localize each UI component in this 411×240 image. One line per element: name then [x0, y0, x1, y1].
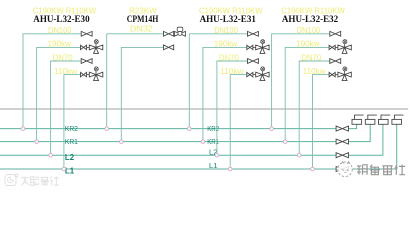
svg-text:AHU-L32-E32: AHU-L32-E32 [282, 14, 339, 24]
connector AHU-L32-E31 row 2 [253, 46, 256, 48]
connector AHU-L32-E32 row 4 [335, 74, 338, 76]
riser outlet box 4 [392, 115, 404, 124]
svg-text:AHU-L32-E31: AHU-L32-E31 [200, 14, 257, 24]
shutoff valve on L2 [336, 152, 349, 158]
node AHU-L32-E32 branch 2 to KR1 [283, 140, 287, 144]
svg-text:L2: L2 [65, 152, 75, 162]
connector AHU-L32-E30 row 4 [87, 74, 90, 76]
shutoff valve on KR2 [336, 126, 349, 132]
3-way control valve AHU-L32-E30 row 2 [89, 40, 103, 54]
bus pipe L1 [0, 124, 397, 169]
wire AHU-L32-E32 branch 2 (KR1 riser) [285, 47, 329, 141]
wire AHU-L32-E32 branch 3 (L2 riser) [299, 61, 330, 155]
3-way control valve AHU-L32-E32 row 4 [338, 67, 351, 81]
gate valve AHU-L32-E31 row 3 [248, 59, 259, 64]
riser outlet box 3 [379, 115, 391, 124]
gate valve AHU-L32-E30 row 3 [81, 59, 92, 64]
wire CPM14H branch 1 (KR2 riser) [107, 34, 164, 129]
wire AHU-L32-E31 branch 3 (L2 riser) [217, 61, 248, 155]
wire AHU-L32-E30 branch 1 (KR2 riser) [23, 34, 81, 129]
node CPM14H branch 2 to KR1 [120, 140, 124, 144]
svg-text:L1: L1 [209, 161, 218, 170]
svg-text:CPM14H: CPM14H [127, 14, 159, 24]
svg-text:L1: L1 [65, 166, 75, 176]
svg-text:DN32: DN32 [130, 24, 153, 33]
watermark logo bottom-left [5, 174, 59, 186]
gate valve CPM14H row 2 [164, 45, 174, 50]
node AHU-L32-E31 branch 3 to L2 [215, 153, 219, 157]
3-way control valve AHU-L32-E30 row 4 [89, 67, 103, 81]
node AHU-L32-E32 branch 4 to L1 [311, 167, 315, 171]
bus pipe KR2 [0, 124, 357, 128]
riser outlet box 1 [352, 115, 364, 124]
3-way control valve AHU-L32-E31 row 2 [256, 40, 269, 54]
svg-text:KR1: KR1 [65, 137, 78, 146]
node AHU-L32-E30 branch 3 to L2 [49, 153, 53, 157]
node AHU-L32-E31 branch 2 to KR1 [201, 140, 205, 144]
gate valve AHU-L32-E30 row 2 [81, 45, 87, 49]
node AHU-L32-E31 branch 1 to KR2 [188, 127, 192, 131]
watermark logo bottom-right [338, 162, 406, 177]
svg-text:KR2: KR2 [65, 124, 78, 133]
node CPM14H branch 1 to KR2 [105, 127, 109, 131]
shutoff valve on L1 [336, 166, 349, 172]
wire AHU-L32-E31 branch 1 (KR2 riser) [189, 34, 247, 129]
bus pipe KR1 [0, 124, 370, 141]
svg-text:AHU-L32-E30: AHU-L32-E30 [33, 14, 90, 24]
gate valve AHU-L32-E32 row 2 [329, 45, 335, 49]
connector AHU-L32-E30 row 2 [87, 46, 90, 48]
3-way control valve AHU-L32-E32 row 2 [338, 40, 351, 54]
node AHU-L32-E30 branch 4 to L1 [62, 167, 66, 171]
node AHU-L32-E30 branch 1 to KR2 [21, 127, 25, 131]
floor slab line [0, 108, 408, 110]
gate valve AHU-L32-E32 row 1 [330, 31, 341, 36]
wire AHU-L32-E30 branch 3 (L2 riser) [51, 61, 82, 155]
riser outlet box 2 [365, 115, 377, 124]
wire AHU-L32-E31 branch 2 (KR1 riser) [203, 47, 247, 141]
wire AHU-L32-E30 branch 2 (KR1 riser) [37, 47, 81, 141]
wire AHU-L32-E31 branch 4 (L1 riser) [230, 75, 247, 169]
wire AHU-L32-E30 branch 4 (L1 riser) [64, 75, 81, 169]
wire CPM14H branch 2 (KR1 riser) [121, 47, 163, 141]
connector AHU-L32-E31 row 4 [253, 74, 256, 76]
gate valve AHU-L32-E30 row 4 [81, 72, 87, 76]
gate valve AHU-L32-E31 row 4 [247, 72, 253, 76]
bus pipe L2 [0, 124, 383, 155]
node AHU-L32-E32 branch 3 to L2 [297, 153, 301, 157]
connector AHU-L32-E32 row 2 [335, 46, 338, 48]
gate valve AHU-L32-E32 row 3 [330, 59, 341, 64]
3-way control valve AHU-L32-E31 row 4 [256, 67, 269, 81]
gate valve AHU-L32-E31 row 1 [248, 31, 259, 36]
wire AHU-L32-E32 branch 4 (L1 riser) [313, 75, 330, 169]
gate valve AHU-L32-E32 row 4 [329, 72, 335, 76]
node AHU-L32-E30 branch 2 to KR1 [35, 140, 39, 144]
node AHU-L32-E31 branch 4 to L1 [228, 167, 232, 171]
gate valve AHU-L32-E30 row 1 [81, 31, 92, 36]
wire AHU-L32-E32 branch 1 (KR2 riser) [272, 34, 330, 129]
gate valve AHU-L32-E31 row 2 [247, 45, 253, 49]
shutoff valve on KR1 [336, 139, 349, 145]
2-way motor valve CPM14H row 1 [174, 27, 185, 36]
gate valve CPM14H row 1 [164, 31, 174, 36]
node AHU-L32-E32 branch 1 to KR2 [270, 127, 274, 131]
